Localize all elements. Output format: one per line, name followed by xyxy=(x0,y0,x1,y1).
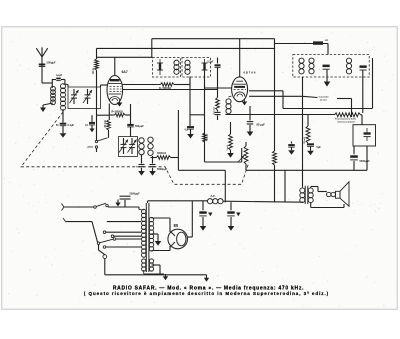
svg-text:A.F.: A.F. xyxy=(211,194,216,198)
label 6A7 xyxy=(122,70,128,74)
tube 6A7 converter xyxy=(107,76,123,105)
ground 6A7 cathode arrow xyxy=(117,101,123,107)
svg-text:( Questo ricevitore è ampiamen: ( Questo ricevitore è ampiamente descrit… xyxy=(84,291,329,296)
wire screen drop x=274.5 xyxy=(274,39,276,203)
wire AF coupling xyxy=(246,146,367,170)
wire mains lead 1 xyxy=(62,204,95,211)
capacitor antenna series 500pF xyxy=(39,60,56,83)
coil speaker voice xyxy=(327,192,336,197)
coil IF2 primary b xyxy=(309,58,314,74)
capacitor IF1 primary xyxy=(157,59,163,75)
resistor 10m ohm (left vertical) xyxy=(91,59,99,74)
antenna xyxy=(36,47,47,66)
label 80 xyxy=(174,223,179,228)
resistor 50000 ohm osc anode xyxy=(151,152,179,160)
capacitor IF1 secondary xyxy=(202,59,208,70)
wire IF2 right vertical xyxy=(372,58,374,108)
dashed gang link xyxy=(21,112,249,184)
box tuning capacitors xyxy=(68,87,101,109)
wire 6A7 plate to IF1 xyxy=(123,84,161,86)
resistor screen dropper xyxy=(273,151,277,165)
svg-text:30 mΩ: 30 mΩ xyxy=(304,137,306,144)
fuse holder xyxy=(103,255,160,275)
terminal +A blob xyxy=(275,38,329,55)
svg-text:80: 80 xyxy=(174,223,179,228)
resistor tone control xyxy=(335,113,361,124)
coil IF2 primary a xyxy=(299,58,304,74)
resistor det load xyxy=(203,133,209,142)
wire AVC to IF2 xyxy=(303,96,318,97)
capacitor IF2 secondary xyxy=(360,65,367,70)
wire HT bottom to rectifier xyxy=(152,246,171,251)
wire det branch xyxy=(190,70,242,162)
resistor 6A7 cathode bias zigzag xyxy=(105,120,111,138)
box oscillator trimmers xyxy=(119,137,138,157)
capacitor padder lead xyxy=(130,127,132,137)
wire 6B7 diode xyxy=(249,91,372,109)
wire taps to primary xyxy=(103,222,141,249)
coil output secondary xyxy=(308,188,313,203)
ground HT center tap xyxy=(152,234,162,246)
ground antenna primary xyxy=(40,108,46,113)
svg-text:0,5 mΩ: 0,5 mΩ xyxy=(214,107,216,115)
wire 6A7 anode2 line xyxy=(123,89,218,91)
switch band change xyxy=(87,138,108,152)
wire left vertical x=96.5 xyxy=(96,48,98,141)
variable capacitor C1 RF tuning xyxy=(70,89,79,104)
choke filter AF xyxy=(207,199,223,204)
svg-text:500μμF: 500μμF xyxy=(135,125,144,128)
svg-text:+A: +A xyxy=(325,38,329,42)
switch mains xyxy=(94,203,109,208)
wire primary bottom ground xyxy=(144,270,169,280)
wire mains lead 2 xyxy=(63,218,98,242)
text block comando xyxy=(319,97,352,118)
wire rectifier output xyxy=(188,201,193,237)
ground det cap xyxy=(187,129,194,138)
caption line 1 xyxy=(113,285,304,291)
svg-text:88 μμF: 88 μμF xyxy=(257,123,266,127)
capacitor osc tracking xyxy=(136,155,144,168)
wire IF2 cap ground xyxy=(324,70,331,87)
wire osc section right vertical xyxy=(178,110,225,202)
svg-text:0,1μF: 0,1μF xyxy=(207,61,214,64)
tube 6B7 IF-detector xyxy=(232,77,248,106)
box pickup xyxy=(353,125,376,146)
wire B+ line xyxy=(148,201,304,202)
capacitor 0.1uF AVC top xyxy=(207,58,220,90)
transformer power core xyxy=(146,203,149,272)
wire grid bus y=57.3 xyxy=(97,56,153,58)
ground below 0.1uF xyxy=(60,126,67,138)
wire 6B7 grid from IF1 xyxy=(205,87,232,89)
wire IF2 sec down xyxy=(362,71,364,114)
svg-text:t.μμF: t.μμF xyxy=(56,74,63,77)
trimmer osc 1 xyxy=(119,138,128,154)
capacitor line filter 5000pF xyxy=(108,192,140,207)
svg-text:50000 Ω: 50000 Ω xyxy=(157,152,166,155)
capacitor AVC xyxy=(215,110,221,120)
tube 80 rectifier xyxy=(168,229,188,249)
resistor 50000 ohm IF grid stopper xyxy=(159,83,174,90)
svg-text:+50Ωa: +50Ωa xyxy=(87,147,94,149)
coil oscillator L1 xyxy=(139,135,144,155)
capacitor 5000pF osc xyxy=(150,156,168,171)
capacitor filter 8uF 1 xyxy=(199,201,212,231)
label AF choke xyxy=(211,194,216,198)
wire 6A7 top cap xyxy=(114,57,116,75)
wire switch2 to fuse xyxy=(99,244,105,254)
svg-text:reazione parlante: reazione parlante xyxy=(337,120,356,123)
capacitor in pickup box xyxy=(364,128,371,141)
capacitor 88pF xyxy=(247,106,266,132)
svg-text:25 mΩ: 25 mΩ xyxy=(105,120,107,127)
capacitor 5000pF output xyxy=(350,146,370,170)
svg-text:1 mΩ: 1 mΩ xyxy=(227,145,229,151)
svg-text:6A7: 6A7 xyxy=(122,70,128,74)
variable capacitor C2 xyxy=(83,89,92,104)
coil antenna secondary xyxy=(61,84,66,111)
ground line filter xyxy=(115,200,120,207)
capacitor IF2 primary xyxy=(323,65,330,70)
coil power primary xyxy=(142,209,146,257)
resistor 6A7 cathode 10000ohm xyxy=(109,111,130,117)
ground osc cap 2 xyxy=(149,168,156,176)
wire IF1 secondary down xyxy=(189,77,191,127)
coil output primary xyxy=(300,188,305,203)
wire HT top to rectifier xyxy=(152,218,171,232)
resistor 6B7 bias xyxy=(227,122,234,158)
coil oscillator L2 xyxy=(148,137,153,155)
wire 6B7 top cap xyxy=(239,39,241,78)
ground heater end xyxy=(204,275,209,282)
switch mains 2 xyxy=(97,238,116,245)
svg-text:Comando: Comando xyxy=(319,97,330,99)
wire secondary top to tuning box xyxy=(63,84,68,87)
wire cathode feed xyxy=(97,114,110,116)
trimmer osc 2 xyxy=(128,138,137,154)
wire 6B7 bottom bus xyxy=(225,114,334,115)
resistor AVC xyxy=(214,90,220,115)
wire primary to ground xyxy=(43,103,53,108)
wire screen bus y=48.4 xyxy=(97,47,275,49)
wire resistor to IF1 coil xyxy=(174,77,190,85)
wire 6A7 cathode down xyxy=(108,104,110,121)
transformer output core xyxy=(305,186,308,204)
wire antenna to primary xyxy=(42,79,52,88)
wire secondary bottom down xyxy=(62,109,64,123)
svg-text:0,1μF: 0,1μF xyxy=(68,124,75,127)
ground 88pF xyxy=(247,132,254,137)
capacitor 5uF cathode xyxy=(307,143,321,155)
label 6B7 xyxy=(244,71,256,75)
svg-text:Potenziometro della: Potenziometro della xyxy=(335,118,357,121)
svg-text:5000μμF: 5000μμF xyxy=(360,160,371,163)
svg-text:6 B 7 A 6: 6 B 7 A 6 xyxy=(244,71,256,75)
svg-text:di sint.: di sint. xyxy=(320,98,327,101)
coil power secondary HT xyxy=(149,217,153,251)
terminal tap circles xyxy=(103,231,114,238)
svg-text:5000μμF: 5000μμF xyxy=(130,192,141,195)
coil IF1 primary xyxy=(174,60,179,74)
svg-text:10 m: 10 m xyxy=(91,67,95,74)
coil power primary 2 xyxy=(142,259,146,271)
caption line 2 xyxy=(84,291,329,296)
svg-text:0,5 mΩ: 0,5 mΩ xyxy=(206,133,208,141)
wire primary top xyxy=(139,201,148,210)
coil 6B7 cathode xyxy=(226,96,232,114)
svg-text:5μF: 5μF xyxy=(317,146,322,149)
wire 6B7 plate xyxy=(249,90,283,92)
IF transformer 1 box A xyxy=(153,58,181,78)
svg-text:R=10000Ω: R=10000Ω xyxy=(112,111,123,113)
capacitor coupling 0.5uF xyxy=(288,142,295,155)
capacitor 0.1uF cathode bypass xyxy=(85,115,95,132)
trimmer capacitor antenna xyxy=(52,74,65,84)
wire tuning box to 6A7 grid xyxy=(101,85,108,87)
wire output plate xyxy=(301,77,303,188)
wire tone to box xyxy=(361,115,363,125)
coil IF2 secondary xyxy=(346,58,351,74)
capacitor 0.5uF det xyxy=(185,126,194,132)
wire plate supply bus y=38.7 xyxy=(152,38,275,40)
coil antenna primary xyxy=(51,86,56,104)
potentiometer volume xyxy=(239,142,248,170)
wire fil to heater xyxy=(152,265,207,275)
wire speaker bottom xyxy=(311,203,344,208)
coil power secondary fil xyxy=(149,259,153,271)
capacitor 500pF osc grid xyxy=(127,104,144,128)
capacitor filter 8uF 2 xyxy=(227,202,240,231)
wire output sec to speaker xyxy=(311,187,327,192)
capacitor 0.1uF AVC left xyxy=(56,123,75,127)
svg-text:500μμF: 500μμF xyxy=(47,60,57,64)
coil IF1 secondary xyxy=(185,60,190,74)
wire output vertical xyxy=(284,170,286,202)
ground osc cap 1 xyxy=(138,168,145,176)
wire vertical from bus to IF1 xyxy=(151,39,153,58)
speaker horn xyxy=(336,182,350,206)
resistor 30m ohm xyxy=(304,115,310,144)
IF transformer 1 box B xyxy=(182,58,211,78)
IF transformer 2 box xyxy=(293,55,369,78)
